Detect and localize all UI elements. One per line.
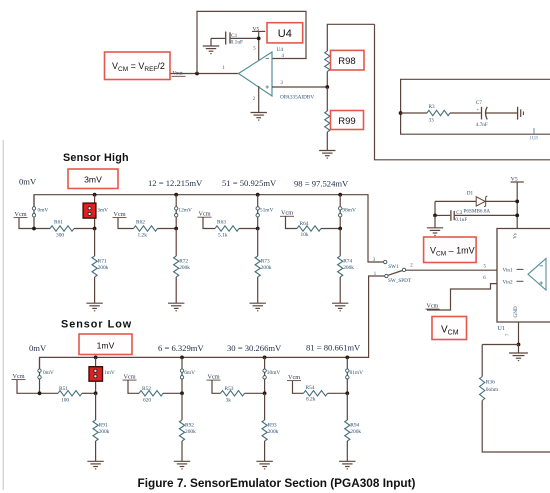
faint page-edge line left — [2, 140, 4, 490]
svg-text:Vcm: Vcm — [288, 374, 300, 381]
svg-text:10k: 10k — [301, 232, 309, 238]
svg-text:U1: U1 — [498, 326, 505, 332]
node rail junction high 3mV — [93, 227, 97, 231]
svg-text:98mV: 98mV — [342, 208, 356, 214]
svg-text:R71: R71 — [98, 258, 107, 264]
wire filter mid left — [401, 112, 427, 114]
svg-text:R74: R74 — [343, 258, 352, 264]
resistor R64 10k cell — [280, 210, 340, 239]
node rail junction high 0mV — [32, 227, 36, 231]
resistor R74 200k — [332, 229, 354, 311]
wire feedback loop to pin 4 — [197, 11, 306, 73]
resistor R98 — [325, 51, 330, 72]
resistor R52 620 cell — [123, 373, 183, 403]
svg-text:R93: R93 — [268, 422, 277, 428]
svg-text:3mV: 3mV — [84, 175, 102, 185]
svg-text:Vcm: Vcm — [427, 303, 439, 309]
svg-text:R72: R72 — [179, 258, 188, 264]
svg-text:C1: C1 — [231, 33, 238, 39]
svg-text:R54: R54 — [306, 385, 315, 391]
label box R98 — [331, 50, 365, 70]
pin Vin2 label — [503, 279, 524, 285]
svg-text:SW_SPDT: SW_SPDT — [388, 278, 412, 284]
node bus junction high 3mV — [93, 193, 97, 197]
node bus junction high 51mV — [256, 193, 260, 197]
node rail junction low 81mV — [345, 391, 349, 395]
svg-text:0ohm: 0ohm — [486, 387, 499, 393]
op-amp U4 input marks — [266, 59, 270, 89]
node bus junction low 30mV — [263, 356, 267, 360]
connector header J-6mV low — [180, 357, 195, 393]
wire C3 ground stem — [434, 215, 436, 227]
svg-text:620: 620 — [143, 397, 151, 403]
svg-text:0mV: 0mV — [43, 370, 54, 376]
svg-text:6mV: 6mV — [184, 370, 195, 376]
svg-text:200k: 200k — [261, 265, 272, 271]
svg-text:3mV: 3mV — [97, 208, 108, 214]
capacitor C1 0.1uF — [211, 32, 259, 46]
resistor R51 100 cell — [12, 373, 96, 404]
node junction gnd net — [517, 343, 521, 347]
node rail junction high 51mV — [256, 227, 260, 231]
node rail junction high 12mV — [174, 227, 178, 231]
svg-text:R61: R61 — [54, 220, 63, 226]
svg-text:51 = 50.925mV: 51 = 50.925mV — [222, 178, 277, 188]
annotation box 1mV — [79, 334, 132, 355]
ground for C1 — [203, 38, 219, 53]
node rail junction high 98mV — [338, 227, 342, 231]
node rail junction low 1mV — [94, 391, 98, 395]
svg-text:GND: GND — [513, 306, 519, 317]
wire op-amp output — [171, 73, 239, 75]
svg-text:1.2k: 1.2k — [138, 233, 148, 239]
svg-text:SW1: SW1 — [388, 264, 399, 270]
svg-text:R94: R94 — [350, 422, 359, 428]
resistor R3 33 — [427, 104, 450, 124]
ground op-amp U4 — [251, 112, 267, 114]
svg-text:200k: 200k — [179, 265, 190, 271]
wire C7 to ground — [486, 112, 517, 114]
wire SW1 common to PGA pin5 — [406, 269, 497, 271]
wire R99 to ground — [326, 132, 328, 151]
wire PGA pin6 to Vcm — [427, 284, 497, 310]
svg-text:Figure 7. SensorEmulator Secti: Figure 7. SensorEmulator Section (PGA308… — [138, 476, 416, 490]
op-amp U4 triangle OPA335 — [239, 52, 273, 96]
net stub label X1B — [530, 128, 539, 142]
resistor R93 200k — [256, 393, 278, 469]
label box U4 — [267, 23, 303, 43]
svg-text:R73: R73 — [261, 258, 270, 264]
resistor R72 200k — [168, 229, 190, 311]
ground sideways filter — [518, 107, 524, 120]
svg-text:12mV: 12mV — [178, 208, 192, 214]
ground PGA gnd — [509, 345, 528, 361]
resistor R92 200k — [174, 393, 196, 469]
svg-text:200k: 200k — [98, 265, 109, 271]
svg-text:0mV: 0mV — [19, 177, 37, 187]
node junction D1/V5 — [515, 200, 519, 204]
wire D1 left leg down — [434, 201, 436, 215]
svg-text:81mV: 81mV — [350, 370, 364, 376]
svg-text:Sensor Low: Sensor Low — [61, 319, 132, 331]
svg-text:33: 33 — [429, 118, 435, 124]
annotation box VCM = VREF/2 — [105, 52, 171, 80]
wire op-amp V- stem — [258, 86, 260, 113]
node bus junction low 81mV — [345, 356, 349, 360]
svg-text:Vs: Vs — [513, 233, 518, 239]
wire VREF feed right — [375, 24, 550, 160]
svg-text:Vin1: Vin1 — [503, 267, 513, 273]
svg-text:300: 300 — [56, 233, 64, 239]
svg-text:Vcm: Vcm — [208, 373, 220, 380]
svg-text:51mV: 51mV — [260, 208, 274, 214]
connector header J-1mV low selected red — [89, 357, 103, 393]
svg-text:81 = 80.661mV: 81 = 80.661mV — [306, 343, 361, 353]
svg-text:R91: R91 — [99, 422, 108, 428]
svg-text:0.1uF: 0.1uF — [231, 40, 243, 46]
power flag V5 op-amp supply — [252, 26, 265, 60]
svg-text:C3: C3 — [456, 210, 462, 216]
node junction filter input — [399, 111, 403, 115]
svg-text:P6SMB6.8A: P6SMB6.8A — [464, 208, 491, 214]
svg-text:U4: U4 — [277, 47, 284, 53]
svg-text:Vcm: Vcm — [114, 211, 126, 218]
svg-text:Vcm: Vcm — [199, 210, 211, 217]
resistor R99 — [325, 111, 330, 132]
svg-text:C7: C7 — [476, 100, 482, 106]
svg-text:OPA335AIDBV: OPA335AIDBV — [280, 95, 314, 101]
resistor R54 8.2k cell — [287, 374, 347, 403]
resistor R53 3k cell — [207, 373, 265, 403]
node junction C3 left — [433, 214, 437, 218]
resistor R36 0ohm — [480, 345, 499, 401]
svg-text:200k: 200k — [343, 265, 354, 271]
svg-text:30 = 30.266mV: 30 = 30.266mV — [227, 343, 282, 353]
power flag V5 chip — [511, 177, 524, 229]
node bus junction low 1mV — [94, 356, 98, 360]
node bus junction high 12mV — [174, 193, 178, 197]
annotation box 3mV — [68, 169, 118, 189]
connector header J-81mV low — [346, 357, 363, 393]
wire filter box top — [401, 79, 550, 134]
resistor R94 200k — [339, 393, 361, 469]
connector header J-12mV high — [175, 195, 192, 229]
svg-text:5.1k: 5.1k — [218, 233, 228, 239]
svg-text:0mV: 0mV — [29, 343, 47, 353]
svg-text:6 = 6.329mV: 6 = 6.329mV — [158, 343, 204, 353]
svg-text:0.1uF: 0.1uF — [455, 217, 467, 223]
node rail junction low 6mV — [180, 391, 184, 395]
node bus junction high 98mV — [338, 193, 342, 197]
diode D1 P6SMB6.8A — [435, 190, 517, 214]
wire divider top — [327, 24, 374, 51]
svg-text:R63: R63 — [217, 220, 226, 226]
svg-text:3k: 3k — [226, 397, 232, 403]
svg-text:R51: R51 — [59, 386, 68, 392]
svg-text:12 = 12.215mV: 12 = 12.215mV — [148, 178, 203, 188]
svg-text:0mV: 0mV — [38, 208, 49, 214]
svg-text:Vcm: Vcm — [124, 373, 136, 380]
switch SW1 SPDT — [373, 258, 413, 284]
svg-text:200k: 200k — [99, 429, 110, 435]
wire divider mid upper — [326, 72, 328, 88]
ground divider — [319, 150, 335, 152]
svg-text:1mV: 1mV — [97, 341, 115, 351]
connector header J-0mV high — [32, 195, 48, 229]
pin Vin1 label — [503, 267, 524, 273]
svg-text:R62: R62 — [136, 220, 145, 226]
resistor R63 5.1k cell — [198, 210, 258, 238]
resistor R73 200k — [250, 229, 272, 311]
svg-text:R52: R52 — [142, 386, 151, 392]
ground D1/C3 — [427, 227, 443, 229]
svg-text:Vcm: Vcm — [15, 211, 27, 218]
wire sensor-high bus — [34, 195, 383, 262]
node junction divider mid — [325, 85, 329, 89]
connector header J-30mV low — [263, 357, 280, 393]
svg-text:Vin2: Vin2 — [503, 279, 513, 285]
svg-text:Sensor High: Sensor High — [63, 152, 129, 164]
wire R3 to C7 — [450, 112, 481, 114]
wire sensor-low bus — [40, 276, 385, 369]
wire divider mid lower — [326, 87, 328, 111]
svg-text:4.7nF: 4.7nF — [476, 122, 488, 128]
connector header J-3mV high selected red — [83, 195, 96, 229]
resistor R62 1.2k cell — [113, 211, 177, 239]
svg-text:R53: R53 — [225, 386, 234, 392]
svg-text:D1: D1 — [467, 190, 474, 196]
annotation box VCM - 1mV — [424, 237, 477, 263]
op-amp inside PGA308 — [528, 259, 546, 291]
wire R36 down and right — [482, 401, 550, 453]
annotation box VCM — [432, 317, 467, 340]
node rail junction low 0mV — [38, 391, 42, 395]
svg-text:R3: R3 — [429, 104, 435, 110]
svg-text:98 = 97.524mV: 98 = 97.524mV — [294, 179, 349, 189]
svg-text:1mV: 1mV — [104, 370, 115, 376]
svg-text:+: + — [477, 107, 480, 112]
wire gnd net left — [482, 344, 518, 346]
svg-text:8.2k: 8.2k — [306, 397, 316, 403]
svg-text:R98: R98 — [338, 56, 355, 67]
connector header J-51mV high — [256, 195, 273, 229]
svg-text:200k: 200k — [268, 429, 279, 435]
wire PGA gnd pin down — [518, 322, 520, 345]
pin 3 wire to divider — [272, 86, 327, 88]
svg-text:R92: R92 — [185, 422, 194, 428]
node bus junction low 6mV — [180, 356, 184, 360]
resistor R71 200k — [86, 229, 108, 311]
svg-text:100: 100 — [61, 397, 69, 403]
capacitor C7 4.7nF — [476, 100, 488, 128]
svg-text:R64: R64 — [300, 221, 309, 227]
svg-text:Vcm: Vcm — [281, 210, 293, 217]
svg-text:1U8: 1U8 — [530, 137, 539, 142]
node junction C1/V5 — [257, 37, 261, 41]
svg-text:R36: R36 — [486, 380, 495, 386]
svg-text:R99: R99 — [338, 116, 355, 127]
svg-text:Vcm: Vcm — [13, 373, 25, 380]
svg-text:30mV: 30mV — [267, 370, 281, 376]
capacitor C3 0.1uF — [435, 210, 517, 223]
connector header J-98mV high — [339, 195, 356, 229]
resistor R61 300 cell — [14, 211, 95, 239]
resistor R91 200k — [87, 393, 109, 469]
svg-text:U4: U4 — [278, 28, 292, 40]
node junction C3/V5 — [515, 214, 519, 218]
connector header J-0mV low — [38, 357, 54, 393]
svg-text:200k: 200k — [350, 429, 361, 435]
svg-text:200k: 200k — [185, 429, 196, 435]
node junction output/feedback — [195, 72, 199, 76]
node rail junction low 30mV — [263, 391, 267, 395]
IC U1 PGA308 outline — [497, 229, 550, 323]
label box R99 — [331, 111, 364, 130]
